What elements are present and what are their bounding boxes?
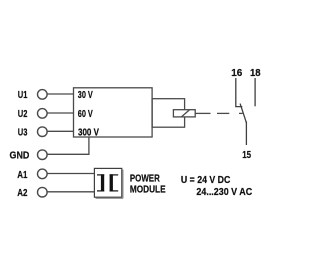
svg-text:24...230 V AC: 24...230 V AC: [196, 187, 252, 198]
wire A1 to power module: [47, 173, 94, 175]
svg-text:A2: A2: [17, 188, 27, 199]
wire contact 16: [236, 78, 243, 107]
terminal GND: [10, 150, 48, 162]
wire contact 18: [254, 78, 256, 106]
wire GND to measuring box bottom: [47, 137, 89, 154]
svg-text:U2: U2: [18, 109, 28, 120]
wire A2 to power module: [47, 191, 94, 193]
terminal U3: [18, 127, 47, 139]
svg-text:60 V: 60 V: [78, 109, 93, 120]
wire U1 to measuring box: [47, 93, 73, 95]
label POWER MODULE: [130, 173, 166, 195]
svg-text:15: 15: [242, 150, 251, 161]
measuring range box U1: [74, 88, 153, 137]
dashed actuation link to contact: [217, 112, 243, 114]
svg-text:300 V: 300 V: [78, 128, 99, 139]
terminal U1: [18, 90, 47, 101]
svg-text:16: 16: [231, 68, 242, 79]
terminal A2: [17, 187, 47, 199]
power module box: [94, 168, 123, 198]
terminal U2: [18, 109, 47, 121]
changeover contact arm: [240, 104, 246, 124]
svg-text:U1: U1: [18, 90, 28, 101]
svg-text:A1: A1: [17, 170, 27, 181]
wire coil lead: [195, 112, 210, 114]
wire U3 to measuring box: [47, 130, 73, 132]
wire U2 to measuring box: [47, 112, 73, 114]
svg-text:U = 24 V DC: U = 24 V DC: [181, 175, 231, 186]
svg-text:U3: U3: [18, 127, 28, 138]
svg-text:GND: GND: [10, 151, 30, 162]
svg-text:POWER: POWER: [130, 173, 160, 184]
svg-text:30 V: 30 V: [78, 90, 93, 101]
relay driver block: [152, 99, 185, 128]
power module transformer symbol: [97, 174, 118, 191]
wire contact 15: [245, 122, 247, 146]
relay coil K1: [173, 110, 195, 117]
terminal A1: [17, 169, 47, 181]
svg-text:18: 18: [250, 68, 261, 79]
svg-text:MODULE: MODULE: [130, 185, 166, 196]
